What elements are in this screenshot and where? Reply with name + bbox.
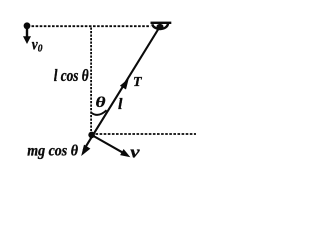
angle arc theta	[91, 110, 107, 115]
svg-text:T: T	[133, 75, 143, 90]
svg-text:v0: v0	[32, 36, 43, 54]
pivot pin dot	[157, 24, 164, 29]
wire: bottom horizontal dotted line from bob to the right	[96, 133, 197, 135]
arrowhead T: tension along string toward pivot	[120, 78, 129, 89]
svg-text:mg cos θ: mg cos θ	[27, 143, 78, 160]
wire: vertical dotted line from top line down to bob	[90, 28, 92, 132]
node A: release point dot top-left	[24, 22, 31, 29]
bob: mass at end of string	[88, 132, 95, 139]
wire: string from pivot to bob, extended to mg cos(theta) arrow	[84, 28, 160, 151]
svg-text:l: l	[118, 96, 123, 113]
arrow v: velocity of bob, perpendicular to string	[94, 136, 131, 157]
arrow v0: initial velocity downward	[23, 29, 31, 45]
svg-text:l cos θ: l cos θ	[54, 68, 89, 86]
pivot support U1: bowl bracket	[152, 24, 168, 29]
pivot support U1: top bar	[151, 22, 172, 24]
wire: top horizontal dotted line from release point to pivot	[32, 25, 151, 27]
svg-text:θ: θ	[96, 94, 106, 111]
svg-text:v: v	[130, 143, 140, 162]
arrowhead mg cos(theta)	[81, 145, 90, 156]
